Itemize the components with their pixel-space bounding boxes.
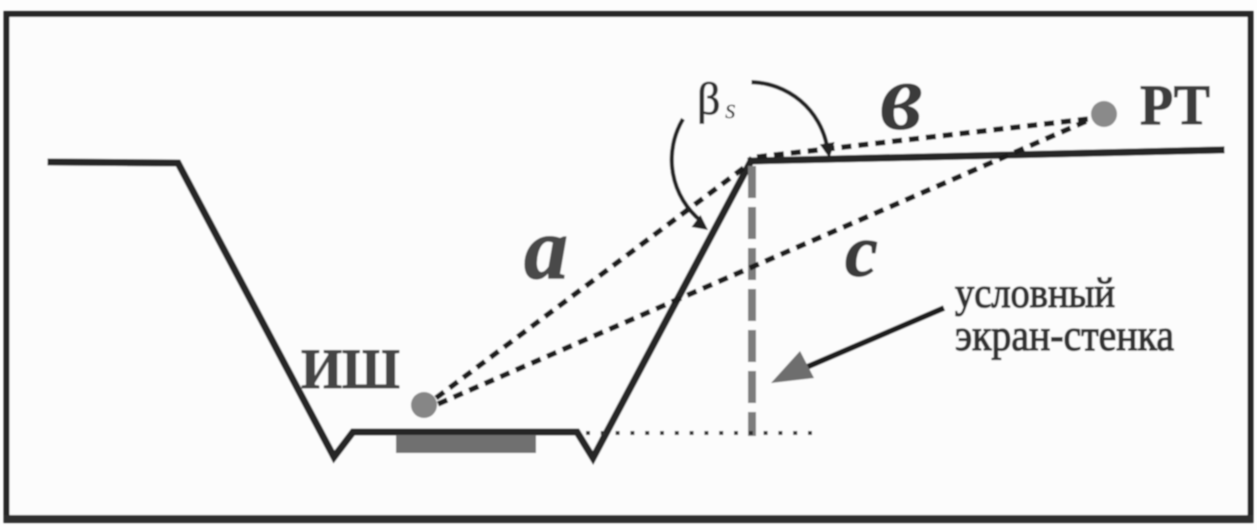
svg-text:РТ: РТ	[1140, 74, 1210, 137]
ray a (source to screen edge, dashed)	[436, 164, 749, 398]
angle arc right segment	[752, 82, 828, 146]
svg-text:c: c	[845, 211, 878, 293]
svg-text:s: s	[725, 94, 736, 125]
noise source point ИШ	[411, 392, 437, 418]
ray в (screen edge to receiver, dashed)	[757, 119, 1088, 157]
svg-text:a: a	[524, 201, 568, 298]
svg-text:в: в	[880, 43, 923, 150]
annotation arrowhead	[771, 351, 814, 383]
receiver point РТ	[1091, 101, 1117, 127]
ray c (source to receiver, dashed)	[438, 120, 1089, 404]
base dotted line	[586, 431, 822, 435]
annotation arrow shaft	[786, 308, 944, 376]
svg-text:ИШ: ИШ	[301, 338, 400, 401]
frame bottom edge (thicker)	[4, 515, 1253, 523]
ground line right of cutting edge	[751, 150, 1221, 161]
svg-text:β: β	[697, 73, 720, 124]
conditional screen-wall (vertical gray dashed line)	[748, 166, 756, 436]
angle arc right arrowhead	[820, 142, 835, 158]
terrain profile (berm, left slope, trench floor, right slope)	[51, 161, 751, 458]
svg-text:экран-стенка: экран-стенка	[955, 311, 1174, 360]
angle arc left segment	[672, 119, 701, 221]
road strip (gray pavement)	[396, 435, 536, 453]
angle arc left arrowhead	[692, 215, 709, 230]
